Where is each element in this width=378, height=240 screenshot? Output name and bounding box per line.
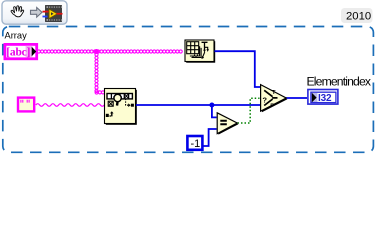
svg-text:?: ? <box>262 95 267 104</box>
svg-text:Elementindex: Elementindex <box>307 75 371 89</box>
svg-text:-1: -1 <box>191 138 201 150</box>
svg-text:I32: I32 <box>318 93 332 104</box>
svg-text:F: F <box>270 104 274 110</box>
svg-text:T: T <box>272 90 276 96</box>
svg-text:2010: 2010 <box>346 10 371 22</box>
svg-text:Array: Array <box>5 31 28 41</box>
svg-text:[abc]: [abc] <box>6 46 30 58</box>
